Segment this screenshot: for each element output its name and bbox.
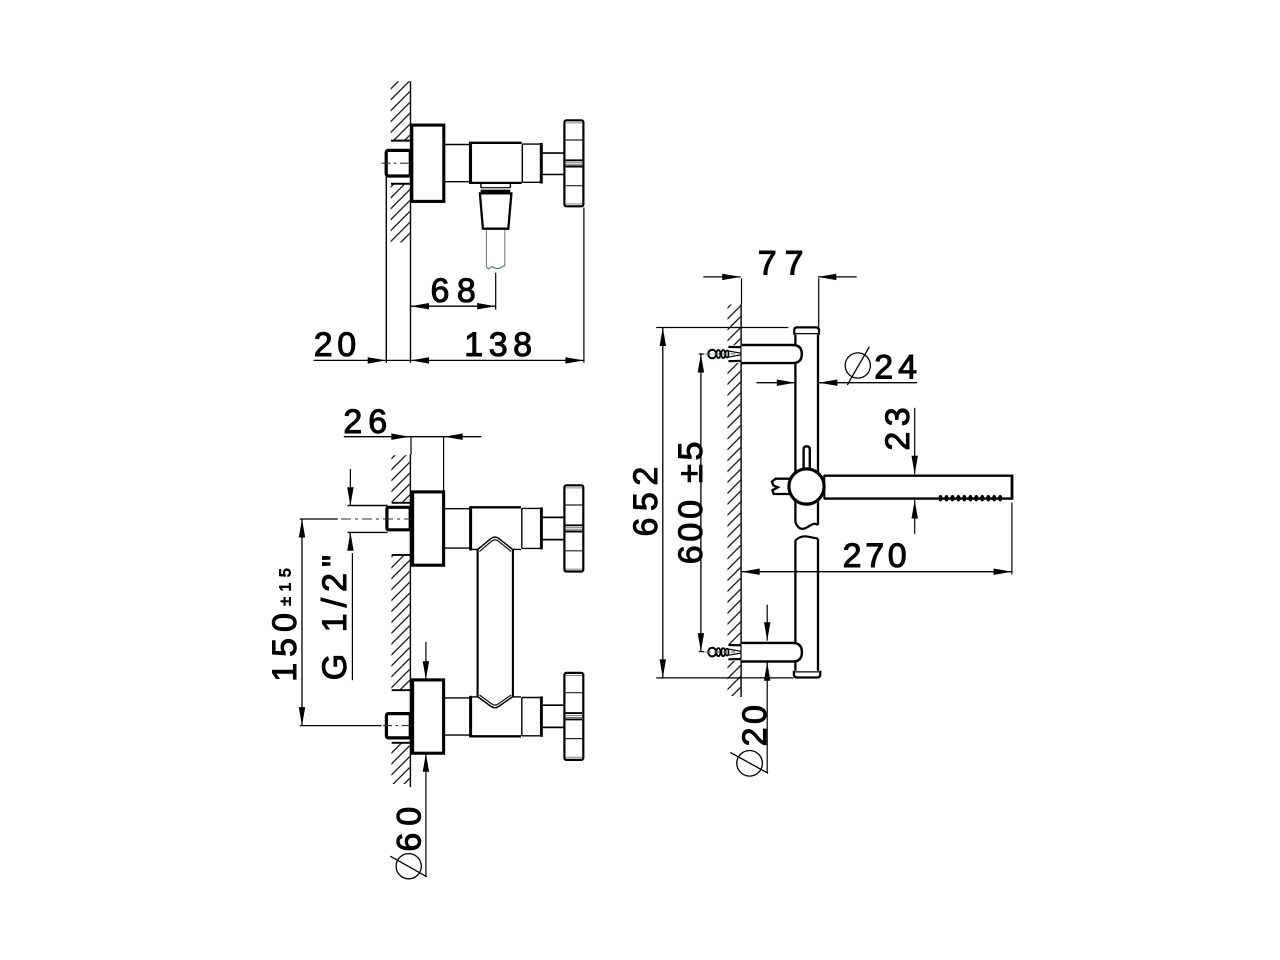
dimension 60 lower leg [425,753,427,877]
svg-text:652: 652 [627,460,665,536]
riser tube right [512,549,514,697]
dimension 77 line right [818,276,857,278]
thread leader lower arrow and underline [349,532,351,550]
rail bar left line [794,334,796,523]
lower body section B [444,697,471,699]
lower body section D [522,697,542,699]
wall hole edge lower-bottom [392,742,410,744]
dimension 150 extension top [300,518,338,520]
diameter 24 symbol [845,353,870,378]
upper handle neck [543,516,565,518]
extension line knob right [583,208,585,363]
svg-text:26: 26 [343,403,393,441]
rail top cap [794,327,819,334]
wall hole edge lower-top [392,689,410,691]
upper body section D [522,507,542,509]
wall back line [385,176,387,363]
dimension 26 extension lines [410,437,412,455]
hand shower handle [824,475,1012,477]
dimension 77 line left [703,276,740,278]
riser upper chevron [478,537,513,550]
svg-text:24: 24 [874,348,922,386]
bottom screw centerline (green) [705,651,735,653]
svg-text:23: 23 [879,402,917,451]
dimension 20 upper leg [766,605,768,641]
svg-text:138: 138 [464,326,537,364]
dimension 150 line [301,519,303,726]
wall hatching section 3 [391,743,409,784]
svg-text:G 1/2": G 1/2" [316,549,354,680]
wall hole edge upper-bottom [392,554,410,556]
dimension 600 line [700,354,702,652]
wall hatching section 2 [728,363,741,644]
spray nozzle dots [938,495,1002,502]
outlet tube break line [486,264,505,269]
thread leader upper arrow [349,469,351,506]
slider body circle [789,469,824,504]
lower handle neck [543,704,565,706]
dimension 652 line [662,328,664,678]
bottom screw rings [708,648,716,657]
wall face line [410,81,412,363]
wall flange [412,125,444,201]
lower handle knob [564,673,583,760]
body section D [522,143,541,145]
dimension 23 lower leg [914,500,916,534]
rail break wave lower [795,536,818,540]
wall hatching section 1 [728,305,741,346]
wall hatching section 1 [391,455,409,502]
dimension 68 line [411,305,496,307]
lower main body C [470,735,521,737]
dimension 77 extension lines [741,278,743,304]
wall hatching section 3 [728,661,741,696]
dimension 24 line left [757,382,796,384]
dimension 23 upper leg [914,408,916,474]
handle neck [543,152,565,154]
wall hatching top section [391,81,410,140]
upper supply pipe [348,505,388,507]
main body C [470,142,521,144]
bottom screw tip [728,649,741,651]
outlet tube [485,230,487,267]
wall hole edge upper-top [392,502,410,504]
rail bottom cap [794,671,820,678]
svg-text:77: 77 [758,244,812,282]
bottom bracket arm [742,643,802,662]
top screw plug edges [728,346,741,349]
extension line 652 bottom [656,677,793,679]
dimension 26 line [344,436,482,438]
svg-text:600 ±5: 600 ±5 [672,438,710,565]
lower wall flange [413,680,444,753]
handle knob [564,120,583,206]
hose connector with break [772,479,791,494]
svg-text:±15: ±15 [278,563,295,606]
body section B [444,144,471,146]
dimension 24 line right [819,382,917,384]
dimension 20 lower leg [766,662,768,773]
dimension 270 extension [1011,503,1013,575]
svg-text:60: 60 [391,800,429,852]
lower centerline [383,725,414,727]
top screw centerline (green) [705,353,735,355]
upper main body C [470,506,521,508]
diameter 20 symbol [737,751,763,777]
rail bar right line [817,334,819,525]
rail break wave upper [795,522,818,529]
bottom screw plug edges [728,644,741,646]
spout collar [480,183,482,188]
dimension 60 upper leg [425,642,427,680]
riser lower chevron [478,697,513,708]
riser tube left [477,549,479,697]
wall face line [409,455,411,787]
upper body section B [444,508,471,510]
svg-text:20: 20 [736,702,774,747]
svg-text:150: 150 [266,607,304,682]
wall hatching mid section [391,184,410,242]
svg-text:20: 20 [314,326,361,364]
svg-text:68: 68 [431,272,484,310]
extension tick 600 bottom [699,651,705,653]
wall face line [740,304,742,697]
spout cone [480,193,512,228]
diameter 60 symbol [396,854,421,879]
upper union nut [387,507,410,530]
extension line spout center [495,273,497,310]
nut centerline [381,162,414,164]
extension line 652 top [656,327,788,329]
spout ring band [481,190,511,194]
upper handle knob [564,485,583,571]
upper centerline [341,518,414,520]
dimension 20/138 line [314,359,584,361]
upper wall flange [413,492,444,565]
extension tick 600 top [699,353,705,355]
union nut [386,150,410,176]
dimension 150 extension bottom [300,725,382,727]
lower union nut [386,714,410,738]
dimension 270 line [741,571,1012,573]
top screw rings [708,350,716,359]
wall hatching section 2 [391,555,409,689]
wall hole edge upper [391,140,410,142]
wall hole edge lower [391,183,410,185]
top screw tip [728,351,741,353]
svg-text:270: 270 [843,537,911,575]
slider knob tab [804,446,810,470]
top bracket arm [742,345,802,363]
